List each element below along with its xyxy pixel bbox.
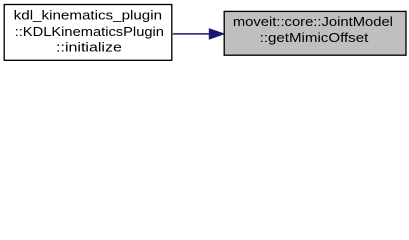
node N2 box: moveit::core::JointModel::getMimicOffset (current node, grey fill): [224, 11, 406, 55]
svg-text:kdl_kinematics_plugin: kdl_kinematics_plugin: [14, 8, 162, 23]
edge wire: N1 -> N2: [173, 33, 210, 35]
svg-text:::initialize: ::initialize: [56, 40, 122, 55]
edge arrowhead: [209, 29, 224, 39]
svg-text:moveit::core::JointModel: moveit::core::JointModel: [233, 14, 393, 29]
svg-text:::KDLKinematicsPlugin: ::KDLKinematicsPlugin: [15, 24, 164, 39]
svg-text:::getMimicOffset: ::getMimicOffset: [260, 30, 369, 45]
node N1 box: kdl_kinematics_plugin::KDLKinematicsPlugin::initialize: [4, 5, 172, 61]
